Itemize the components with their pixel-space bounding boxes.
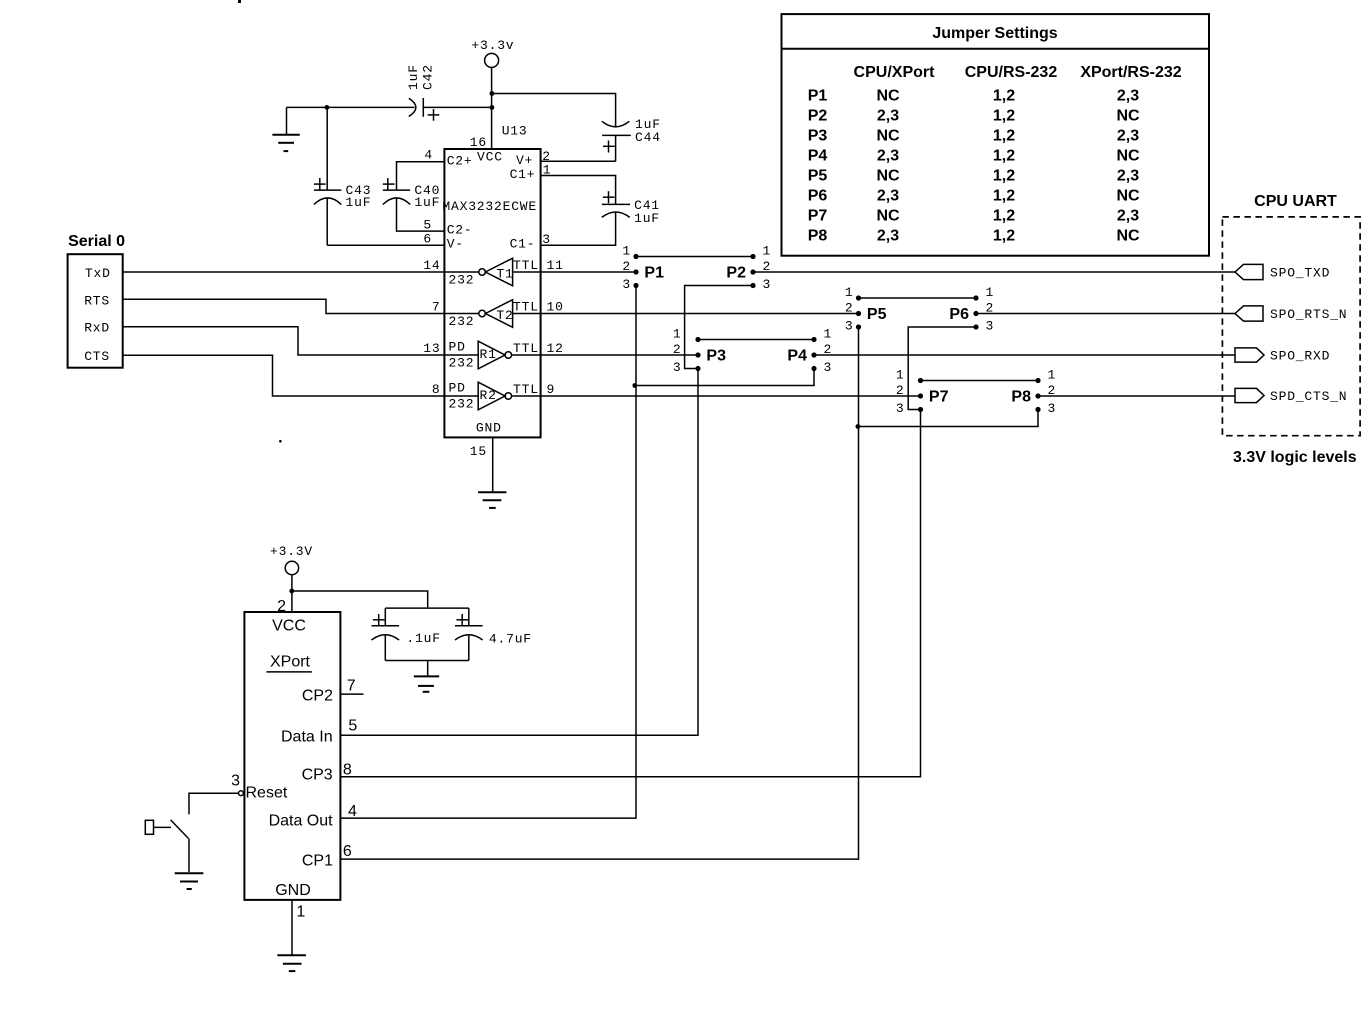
- svg-text:2: 2: [896, 383, 905, 398]
- capacitor C44 1uF: [541, 117, 661, 161]
- svg-text:CTS: CTS: [84, 349, 110, 364]
- switch SW reset: [145, 820, 189, 872]
- IC U13 MAX3232ECWE: [423, 123, 551, 459]
- svg-text:7: 7: [347, 678, 356, 695]
- svg-text:2: 2: [277, 598, 286, 615]
- svg-text:NC: NC: [1116, 107, 1140, 124]
- svg-text:V+: V+: [516, 153, 533, 168]
- svg-text:232: 232: [449, 272, 475, 287]
- inverter R2 (pins 8/9): [432, 381, 555, 412]
- svg-text:2: 2: [986, 301, 995, 316]
- svg-text:1: 1: [763, 244, 772, 259]
- stray dot: [279, 440, 282, 443]
- svg-text:RTS: RTS: [84, 294, 110, 309]
- svg-text:P8: P8: [808, 228, 828, 245]
- svg-text:TTL: TTL: [513, 258, 539, 273]
- svg-text:CP3: CP3: [302, 767, 333, 784]
- svg-text:CP1: CP1: [302, 853, 333, 870]
- svg-text:1,2: 1,2: [993, 188, 1015, 205]
- svg-text:10: 10: [547, 300, 564, 315]
- wire P1-1 to P2-1: [636, 256, 753, 258]
- jumper P1: [622, 244, 664, 293]
- svg-text:2,3: 2,3: [1117, 87, 1139, 104]
- svg-text:1uF: 1uF: [346, 195, 372, 210]
- svg-text:14: 14: [423, 258, 440, 273]
- svg-text:NC: NC: [1116, 228, 1140, 245]
- svg-text:3: 3: [763, 277, 772, 292]
- svg-text:1,2: 1,2: [993, 228, 1015, 245]
- wire CTS row (jog to U13 pin8, R2 to P7-2, P8-2 to SPD_CTS_N): [123, 355, 1235, 396]
- node C43 top junction: [325, 105, 330, 110]
- svg-text:2: 2: [673, 342, 682, 357]
- svg-text:RxD: RxD: [84, 321, 110, 336]
- svg-text:+3.3v: +3.3v: [471, 38, 514, 53]
- svg-text:3: 3: [231, 773, 240, 790]
- svg-text:1,2: 1,2: [993, 148, 1015, 165]
- jumper P7: [896, 368, 949, 417]
- svg-text:P7: P7: [929, 389, 949, 406]
- ground (below U13 pin 15): [478, 437, 506, 508]
- svg-text:2,3: 2,3: [1117, 127, 1139, 144]
- svg-text:1,2: 1,2: [993, 208, 1015, 225]
- svg-text:GND: GND: [476, 421, 502, 436]
- svg-text:15: 15: [470, 444, 487, 459]
- node junction P5-3/P8-3: [856, 424, 861, 429]
- svg-text:3: 3: [542, 232, 551, 247]
- svg-text:3: 3: [896, 401, 905, 416]
- svg-text:.1uF: .1uF: [406, 631, 440, 646]
- svg-text:6: 6: [423, 232, 432, 247]
- svg-text:2: 2: [824, 342, 833, 357]
- svg-text:1: 1: [543, 163, 552, 178]
- svg-text:Data Out: Data Out: [269, 813, 334, 830]
- svg-text:P6: P6: [949, 306, 969, 323]
- wire TxD row (Serial0 pin to U13 pin14, T1 to P1-2, P2-2 to SPO_TXD): [123, 271, 1235, 273]
- node junction P1-3/P4-3: [632, 383, 637, 388]
- svg-text:3: 3: [622, 277, 631, 292]
- svg-text:1: 1: [986, 285, 995, 300]
- svg-text:1uF: 1uF: [406, 64, 421, 90]
- svg-text:2: 2: [763, 259, 772, 274]
- svg-text:1: 1: [896, 368, 905, 383]
- svg-text:13: 13: [423, 341, 440, 356]
- svg-text:P4: P4: [787, 348, 807, 365]
- svg-text:Serial 0: Serial 0: [68, 233, 125, 250]
- stray mark top: [238, 0, 241, 3]
- wire VCC to C44 branch: [492, 94, 616, 127]
- svg-text:SPO_TXD: SPO_TXD: [1270, 266, 1330, 281]
- wire P2-3 jog to P3-3: [685, 286, 753, 369]
- wire P3-1 to P4-1: [698, 339, 814, 341]
- wire RxD row (jog to U13 pin13, R1 to P3-2, P4-2 to SPO_RXD): [123, 327, 1235, 355]
- power +3.3V (XPort): [270, 544, 313, 612]
- svg-text:R1: R1: [480, 347, 497, 362]
- svg-text:TTL: TTL: [513, 382, 539, 397]
- svg-text:P2: P2: [726, 265, 746, 282]
- CPU UART dashed box: [1222, 193, 1360, 466]
- svg-text:C2-: C2-: [447, 223, 473, 238]
- svg-text:P3: P3: [808, 127, 828, 144]
- svg-text:1: 1: [296, 903, 305, 920]
- power +3.3v (top): [471, 38, 514, 149]
- wire P5-3 vertical to XPort CP1: [340, 327, 858, 859]
- svg-text:R2: R2: [480, 388, 497, 403]
- IC XPort: [231, 598, 357, 920]
- svg-text:232: 232: [449, 314, 475, 329]
- inverter T1 (pins 14/11): [423, 258, 563, 287]
- svg-text:2,3: 2,3: [1117, 208, 1139, 225]
- pin Reset bubble: [239, 791, 244, 796]
- svg-text:P2: P2: [808, 107, 828, 124]
- svg-text:NC: NC: [876, 208, 900, 225]
- svg-text:NC: NC: [1116, 148, 1140, 165]
- inverter T2 (pins 7/10): [432, 300, 564, 329]
- svg-text:2: 2: [1048, 383, 1057, 398]
- wire +3.3V to bypass caps: [292, 591, 428, 608]
- capacitor C43 1uF: [314, 107, 371, 245]
- wire P4-3 link to P1-3 vertical: [636, 369, 814, 386]
- svg-text:SPO_RTS_N: SPO_RTS_N: [1270, 307, 1347, 322]
- svg-text:P3: P3: [706, 348, 726, 365]
- svg-text:1,2: 1,2: [993, 87, 1015, 104]
- svg-text:NC: NC: [1116, 188, 1140, 205]
- inverter R1 (pins 13/12): [423, 340, 563, 371]
- wire P8-3 link to P5-3 vertical: [859, 410, 1039, 427]
- svg-text:TTL: TTL: [513, 300, 539, 315]
- svg-text:NC: NC: [876, 127, 900, 144]
- wire P7-3 vertical to XPort CP3: [340, 410, 920, 777]
- wire P1-3 vertical to XPort Data Out: [340, 286, 636, 819]
- wire RTS row (jog to U13 pin7, T2 to P5-2, P6-2 to SPO_RTS_N): [123, 299, 1235, 313]
- svg-text:1,2: 1,2: [993, 127, 1015, 144]
- svg-text:T1: T1: [496, 266, 513, 281]
- jumper P6: [949, 285, 994, 334]
- jumper P3: [673, 327, 726, 376]
- ground (XPort GND pin 1): [277, 900, 306, 971]
- svg-text:P5: P5: [808, 168, 828, 185]
- svg-text:7: 7: [432, 300, 441, 315]
- svg-text:1: 1: [1048, 368, 1057, 383]
- svg-text:VCC: VCC: [272, 618, 306, 635]
- wire Reset to switch: [189, 793, 239, 814]
- svg-text:2,3: 2,3: [877, 148, 899, 165]
- port SPO_RTS_N: [1235, 306, 1347, 322]
- svg-text:1,2: 1,2: [993, 168, 1015, 185]
- svg-text:CPU UART: CPU UART: [1254, 193, 1337, 210]
- svg-text:5: 5: [423, 218, 432, 233]
- capacitor 4.7uF: [385, 608, 532, 660]
- svg-text:4.7uF: 4.7uF: [489, 632, 532, 647]
- svg-text:4: 4: [348, 803, 357, 820]
- svg-text:PD: PD: [449, 381, 466, 396]
- svg-text:1: 1: [824, 327, 833, 342]
- jumper settings table: [782, 14, 1210, 256]
- svg-text:232: 232: [449, 396, 475, 411]
- svg-text:5: 5: [348, 718, 357, 735]
- svg-text:P4: P4: [808, 148, 828, 165]
- svg-text:CPU/RS-232: CPU/RS-232: [965, 64, 1058, 81]
- wire P3-3 vertical to XPort Data In: [340, 369, 698, 736]
- svg-text:V-: V-: [447, 237, 464, 252]
- svg-text:MAX3232ECWE: MAX3232ECWE: [442, 199, 537, 214]
- port SPO_TXD: [1235, 264, 1330, 280]
- capacitor .1uF: [372, 608, 469, 660]
- svg-text:C44: C44: [635, 130, 661, 145]
- ground (top left): [272, 107, 299, 151]
- svg-text:Jumper Settings: Jumper Settings: [932, 25, 1057, 42]
- svg-text:2,3: 2,3: [1117, 168, 1139, 185]
- capacitor C41 1uF: [541, 176, 660, 246]
- svg-text:P6: P6: [808, 188, 828, 205]
- wire P7-1 to P8-1: [921, 380, 1039, 382]
- svg-text:P8: P8: [1011, 389, 1031, 406]
- svg-text:2: 2: [845, 301, 854, 316]
- svg-text:1uF: 1uF: [634, 211, 660, 226]
- svg-text:SPD_CTS_N: SPD_CTS_N: [1270, 389, 1347, 404]
- svg-text:C42: C42: [421, 64, 436, 90]
- svg-text:2,3: 2,3: [877, 188, 899, 205]
- ground (bypass caps): [414, 661, 439, 692]
- svg-text:12: 12: [547, 341, 564, 356]
- svg-text:VCC: VCC: [477, 149, 503, 164]
- wire V- row from C43: [327, 244, 444, 246]
- port SPO_RXD: [1235, 348, 1330, 364]
- port SPD_CTS_N: [1235, 388, 1347, 404]
- svg-text:C1-: C1-: [510, 237, 536, 252]
- svg-text:XPort: XPort: [270, 654, 311, 671]
- capacitor C40 1uF: [383, 162, 445, 231]
- svg-text:2,3: 2,3: [877, 228, 899, 245]
- svg-text:CPU/XPort: CPU/XPort: [854, 64, 936, 81]
- svg-text:1,2: 1,2: [993, 107, 1015, 124]
- node +3.3V junction: [289, 589, 294, 594]
- ground (reset switch): [175, 873, 204, 889]
- jumper P5: [845, 285, 887, 334]
- svg-text:C2+: C2+: [447, 153, 473, 168]
- svg-text:8: 8: [432, 382, 441, 397]
- capacitor C42 1uF (series, horizontal): [406, 64, 492, 121]
- wire ground rail to C42: [287, 106, 415, 108]
- svg-text:XPort/RS-232: XPort/RS-232: [1080, 64, 1181, 81]
- svg-text:16: 16: [470, 135, 487, 150]
- svg-text:PD: PD: [449, 340, 466, 355]
- svg-text:1: 1: [673, 327, 682, 342]
- svg-text:P1: P1: [644, 265, 664, 282]
- svg-text:P5: P5: [867, 306, 887, 323]
- svg-text:P7: P7: [808, 208, 828, 225]
- jumper P4: [787, 327, 832, 376]
- svg-text:232: 232: [449, 355, 475, 370]
- svg-text:P1: P1: [808, 87, 828, 104]
- connector Serial 0: [68, 233, 126, 368]
- svg-text:1: 1: [845, 285, 854, 300]
- svg-text:3.3V logic levels: 3.3V logic levels: [1233, 449, 1357, 466]
- svg-text:C1+: C1+: [510, 167, 536, 182]
- svg-text:Reset: Reset: [246, 785, 288, 802]
- jumper P8: [1011, 368, 1056, 417]
- svg-text:3: 3: [1048, 401, 1057, 416]
- svg-text:TxD: TxD: [85, 266, 111, 281]
- svg-text:GND: GND: [275, 882, 311, 899]
- svg-text:2: 2: [622, 259, 631, 274]
- pin 7 stub CP2: [340, 693, 363, 695]
- svg-text:NC: NC: [876, 168, 900, 185]
- svg-text:T2: T2: [496, 308, 513, 323]
- svg-text:U13: U13: [502, 123, 528, 138]
- wire P6-3 jog to P7-3: [908, 327, 976, 410]
- svg-text:3: 3: [673, 360, 682, 375]
- svg-text:SPO_RXD: SPO_RXD: [1270, 349, 1330, 364]
- svg-text:8: 8: [343, 761, 352, 778]
- svg-text:11: 11: [547, 258, 564, 273]
- svg-text:1uF: 1uF: [414, 195, 440, 210]
- svg-text:4: 4: [424, 148, 433, 163]
- svg-text:3: 3: [845, 319, 854, 334]
- svg-text:+3.3V: +3.3V: [270, 544, 313, 559]
- svg-text:9: 9: [547, 382, 556, 397]
- svg-text:Data In: Data In: [281, 729, 333, 746]
- jumper P2: [726, 244, 771, 293]
- svg-text:1: 1: [622, 244, 631, 259]
- svg-text:NC: NC: [876, 87, 900, 104]
- svg-text:3: 3: [986, 319, 995, 334]
- svg-text:CP2: CP2: [302, 687, 333, 704]
- node VCC junction dots: [490, 91, 495, 96]
- svg-text:6: 6: [343, 843, 352, 860]
- svg-text:2,3: 2,3: [877, 107, 899, 124]
- wire P5-1 to P6-1: [859, 297, 977, 299]
- svg-text:3: 3: [824, 360, 833, 375]
- svg-text:TTL: TTL: [513, 341, 539, 356]
